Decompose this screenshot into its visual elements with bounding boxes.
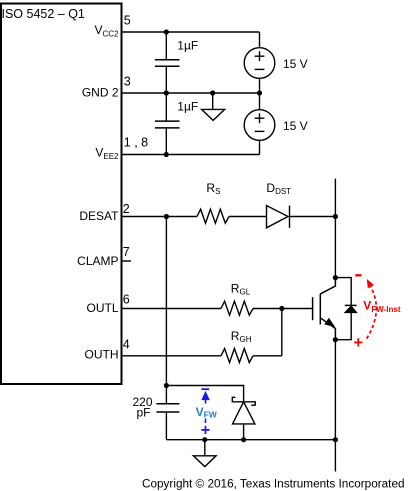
emitter lead [320,318,335,340]
diode D_FW freewheel [345,305,357,312]
wire VEE2 row [122,154,260,156]
node zener/rail junction [241,437,246,442]
wire emitter rail [334,340,336,440]
blue arrowhead VFW [202,392,209,400]
svg-text:CLAMP: CLAMP [77,254,118,268]
svg-text:1 , 8: 1 , 8 [124,136,148,150]
svg-text:GND 2: GND 2 [82,86,119,100]
svg-text:1µF: 1µF [177,100,198,114]
node VCC2/C1 junction [164,29,169,34]
svg-text:OUTL: OUTL [86,301,118,315]
svg-text:pF: pF [136,406,150,420]
wire DESAT row left [122,216,197,218]
pin stub CLAMP [122,260,131,262]
IC box ISO 5452-Q1 [1,4,122,385]
wire RGH to riser [253,355,282,357]
red arrowhead [367,280,373,288]
wire C2 bottom lead [165,129,167,155]
capacitor C1 1uF [155,60,180,66]
wire OUTH row left [122,355,221,357]
capacitor C2 1uF [155,121,180,128]
resistor RS [197,209,229,223]
node gnd junction [202,437,207,442]
ground (upper) [202,93,225,120]
svg-text:3: 3 [124,74,131,88]
wire RS to DDST [229,216,267,218]
svg-text:OUTH: OUTH [85,348,119,362]
node gate junction [279,306,284,311]
svg-text:DESAT: DESAT [79,209,119,223]
wire V1 to node [259,78,261,93]
blue plus annotation [201,426,209,434]
node GND2/gnd junction [210,90,215,95]
wire RGL to gate node [253,308,282,310]
red minus annotation [355,274,361,276]
node collector junction [333,275,338,280]
wire C1 top lead [165,32,167,59]
gate bar [312,297,314,320]
emitter arrow [325,318,334,326]
node GND2/sources junction [257,90,262,95]
source V1 15V [244,48,275,79]
diode DDST [267,206,290,228]
svg-text:7: 7 [123,245,130,259]
source V2 15V [244,110,275,141]
resistor RGL [221,301,253,315]
wire zener loop top [166,386,243,402]
blue minus annotation [201,388,209,390]
wire bottom rail [166,439,335,441]
wire collector rail upper [334,179,336,278]
wire GND2 row [122,92,260,94]
svg-text:5: 5 [124,14,131,28]
wire riser OUTH to gate node [281,309,283,356]
svg-text:15 V: 15 V [283,57,308,71]
transistor Q1 IGBT [313,278,336,340]
node VEE2/C2 junction [164,152,169,157]
diode DZ zener [232,397,255,424]
body bar [319,294,321,325]
svg-text:15 V: 15 V [283,119,308,133]
wire DESAT blanking riser [165,217,167,404]
node GND2/C1 junction [164,90,169,95]
wire gate lead [282,308,312,310]
svg-text:4: 4 [123,337,130,351]
wire C3 bottom lead [165,413,167,440]
wire zener to bottom rail [243,424,245,440]
node emitter/rail junction [333,437,338,442]
wire source V2 to VEE2 [259,140,261,154]
wire node to V2 [259,93,261,110]
wire C1 bottom lead [165,67,167,93]
svg-text:ISO 5452 – Q1: ISO 5452 – Q1 [2,7,85,21]
red plus annotation [354,338,362,346]
ground (lower) [193,440,216,467]
wire C2 top lead [165,93,167,121]
svg-text:Copyright © 2016, Texas Instru: Copyright © 2016, Texas Instruments Inco… [142,478,405,491]
svg-text:6: 6 [123,293,130,307]
resistor RGH [221,349,253,363]
node DESAT/rail junction [333,214,338,219]
wire DDST to collector rail [290,216,336,218]
red dashed arc VFW-Inst [367,285,377,339]
node blanking/zener junction [164,383,169,388]
collector lead [320,278,335,294]
wire VCC2 to source V1 [259,32,261,48]
wire freewheel loop top [335,278,351,306]
node DESAT junction [164,214,169,219]
wire VCC2 row [122,31,260,33]
blue dashed stem [205,400,207,423]
wire freewheel loop bottom [335,313,351,340]
wire OUTL row left [122,308,221,310]
capacitor C3 220pF [156,404,179,412]
svg-text:1µF: 1µF [177,38,198,52]
wire emitter rail tail [334,440,336,472]
svg-text:2: 2 [123,202,130,216]
node emitter junction [333,337,338,342]
